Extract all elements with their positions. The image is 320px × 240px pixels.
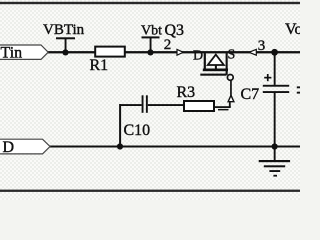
svg-text:VBTin: VBTin [43,22,85,38]
svg-text:Vo: Vo [285,21,300,38]
svg-text:Q3: Q3 [165,22,185,39]
svg-text:3: 3 [258,38,266,54]
svg-text:R3: R3 [177,84,196,101]
svg-text:R1: R1 [90,57,109,74]
svg-text:C7: C7 [241,86,260,103]
svg-text:S: S [228,48,236,63]
svg-text:D: D [3,139,15,156]
svg-text:C10: C10 [124,122,151,139]
svg-text:2: 2 [164,37,172,53]
svg-text:D: D [193,49,203,64]
svg-text:Vbt: Vbt [141,24,162,39]
svg-text:Tin: Tin [1,44,23,61]
